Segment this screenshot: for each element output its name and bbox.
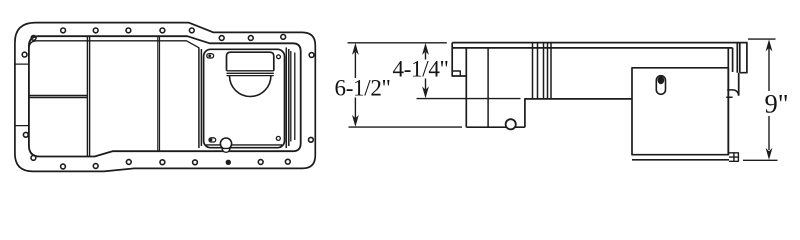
svg-text:4-1/4": 4-1/4": [393, 57, 449, 82]
svg-text:9": 9": [765, 89, 789, 119]
svg-text:6-1/2": 6-1/2": [335, 76, 391, 101]
